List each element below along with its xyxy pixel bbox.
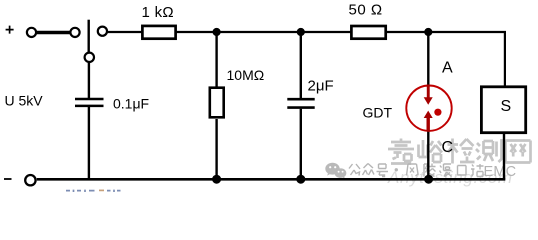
svg-text:GDT: GDT <box>363 105 393 121</box>
svg-text:0.1μF: 0.1μF <box>113 96 149 112</box>
svg-text:EMC: EMC <box>484 164 517 180</box>
svg-text:10MΩ: 10MΩ <box>227 67 265 83</box>
svg-text:1 kΩ: 1 kΩ <box>142 4 174 21</box>
svg-text:2μF: 2μF <box>308 78 334 95</box>
svg-text:A: A <box>442 60 453 77</box>
svg-text:50 Ω: 50 Ω <box>349 2 383 19</box>
svg-text:C: C <box>442 139 454 156</box>
svg-text:S: S <box>501 98 512 115</box>
svg-text:U 5kV: U 5kV <box>5 93 44 109</box>
